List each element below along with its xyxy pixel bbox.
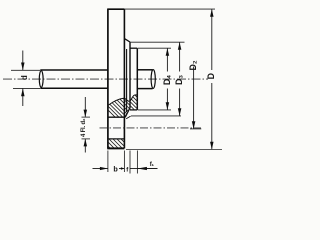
arrow d bottom xyxy=(21,88,25,96)
dimension D2 line xyxy=(193,67,195,129)
svg-text:d: d xyxy=(20,75,29,80)
dimension d extension top xyxy=(11,69,40,71)
arrow f1 right xyxy=(137,167,147,170)
arrow D bottom xyxy=(210,142,214,150)
svg-text:D₄: D₄ xyxy=(162,75,172,85)
extension line bottom D xyxy=(126,149,222,151)
pipe stub break ellipse xyxy=(151,70,155,89)
extension line ringB top xyxy=(138,47,171,49)
arrow D4 top xyxy=(166,48,170,56)
wire pipe top edge xyxy=(40,69,108,71)
bolt hole dimension line lower xyxy=(84,139,86,152)
arrow D top xyxy=(210,9,214,17)
arrow d top xyxy=(21,63,25,71)
bolt hole top line xyxy=(108,116,125,118)
bolt hole bottom line xyxy=(108,138,125,140)
flange plate top edge xyxy=(107,8,124,10)
arrow D2 bottom xyxy=(192,121,196,129)
breakout wavy line xyxy=(108,95,137,106)
flange plate right edge xyxy=(123,9,125,148)
dimension b line middle xyxy=(119,168,124,170)
bolt hole centerline xyxy=(100,127,202,129)
arrow hole bottom xyxy=(84,139,88,147)
dimension b line left xyxy=(93,168,108,170)
dimension D3 line xyxy=(179,42,181,71)
flange plate bottom edge xyxy=(107,147,124,149)
hub ring A right edge xyxy=(129,42,131,108)
dimension d line lower xyxy=(22,89,24,106)
extension line top D xyxy=(124,8,215,10)
pipe stub bottom edge xyxy=(137,88,152,90)
hub ring A bottom step xyxy=(125,108,130,118)
dimension D line xyxy=(211,9,213,70)
arrow D4 bottom xyxy=(166,102,170,110)
bolt hole dimension line upper xyxy=(84,97,86,117)
hub ring A chamfer top xyxy=(124,39,130,42)
flange plate left edge xyxy=(107,9,109,148)
hole ext tick bottom xyxy=(82,138,91,140)
ring B right edge xyxy=(136,48,138,110)
svg-text:D₂: D₂ xyxy=(188,60,198,70)
arrow b right xyxy=(121,167,125,170)
pipe break ellipse left xyxy=(39,71,43,88)
extension line ringA top xyxy=(130,41,185,43)
wire pipe bottom edge xyxy=(40,87,108,89)
dimension D4 line xyxy=(166,48,168,71)
arrow D3 bottom xyxy=(178,108,182,116)
section hatching upper xyxy=(86,88,173,122)
dimension f1 line xyxy=(137,168,157,170)
dimension d extension bottom xyxy=(13,87,40,89)
extension line ringA bottom xyxy=(131,115,181,117)
dimension line f to f1 xyxy=(130,168,137,170)
bottom ext line plate right xyxy=(123,151,125,173)
dimension d line upper xyxy=(22,51,24,71)
ring B top edge xyxy=(130,47,137,49)
arrow b left xyxy=(100,167,108,170)
raised face seam line xyxy=(126,49,128,112)
svg-text:4 Fl. d₂: 4 Fl. d₂ xyxy=(81,118,87,137)
svg-text:f₁: f₁ xyxy=(150,162,155,168)
pipe stub top edge xyxy=(137,69,152,71)
section hatching lower xyxy=(98,136,142,152)
bottom ext line ringB xyxy=(136,151,138,174)
D2 tick line xyxy=(190,128,201,130)
arrow hole top xyxy=(84,110,88,118)
ring B bottom edge xyxy=(130,109,137,111)
bottom ext line plate left xyxy=(107,151,109,173)
ring A bottom chamfer xyxy=(126,116,130,119)
extension line ringB bottom xyxy=(138,109,171,111)
svg-text:D₃: D₃ xyxy=(174,75,184,85)
hole ext tick top xyxy=(82,116,91,118)
bottom ext line ringA xyxy=(129,151,131,174)
svg-text:D: D xyxy=(206,73,216,79)
centerline main axis xyxy=(3,78,208,80)
arrow D3 top xyxy=(178,42,182,50)
